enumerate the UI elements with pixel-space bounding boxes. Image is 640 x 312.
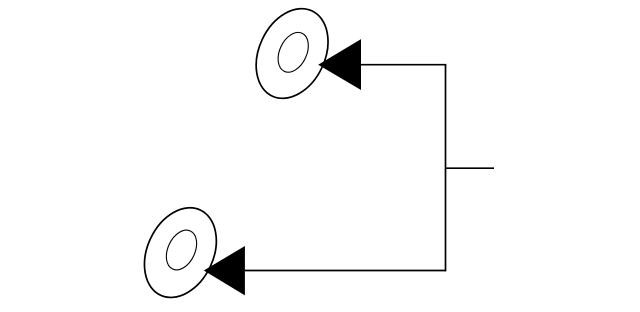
grommet G2 inner hole xyxy=(160,225,202,274)
wire: callout stub xyxy=(446,167,495,169)
wire: bottom leader line xyxy=(245,270,446,272)
wire: bracket vertical xyxy=(445,64,447,271)
leader arrow A2 xyxy=(204,246,245,295)
grommet G1 outer ring xyxy=(242,0,342,110)
wire: top leader line xyxy=(361,64,446,66)
grommet G2 outer ring xyxy=(131,196,231,309)
grommet G1 inner hole xyxy=(272,28,314,77)
leader arrow A1 xyxy=(318,39,361,90)
